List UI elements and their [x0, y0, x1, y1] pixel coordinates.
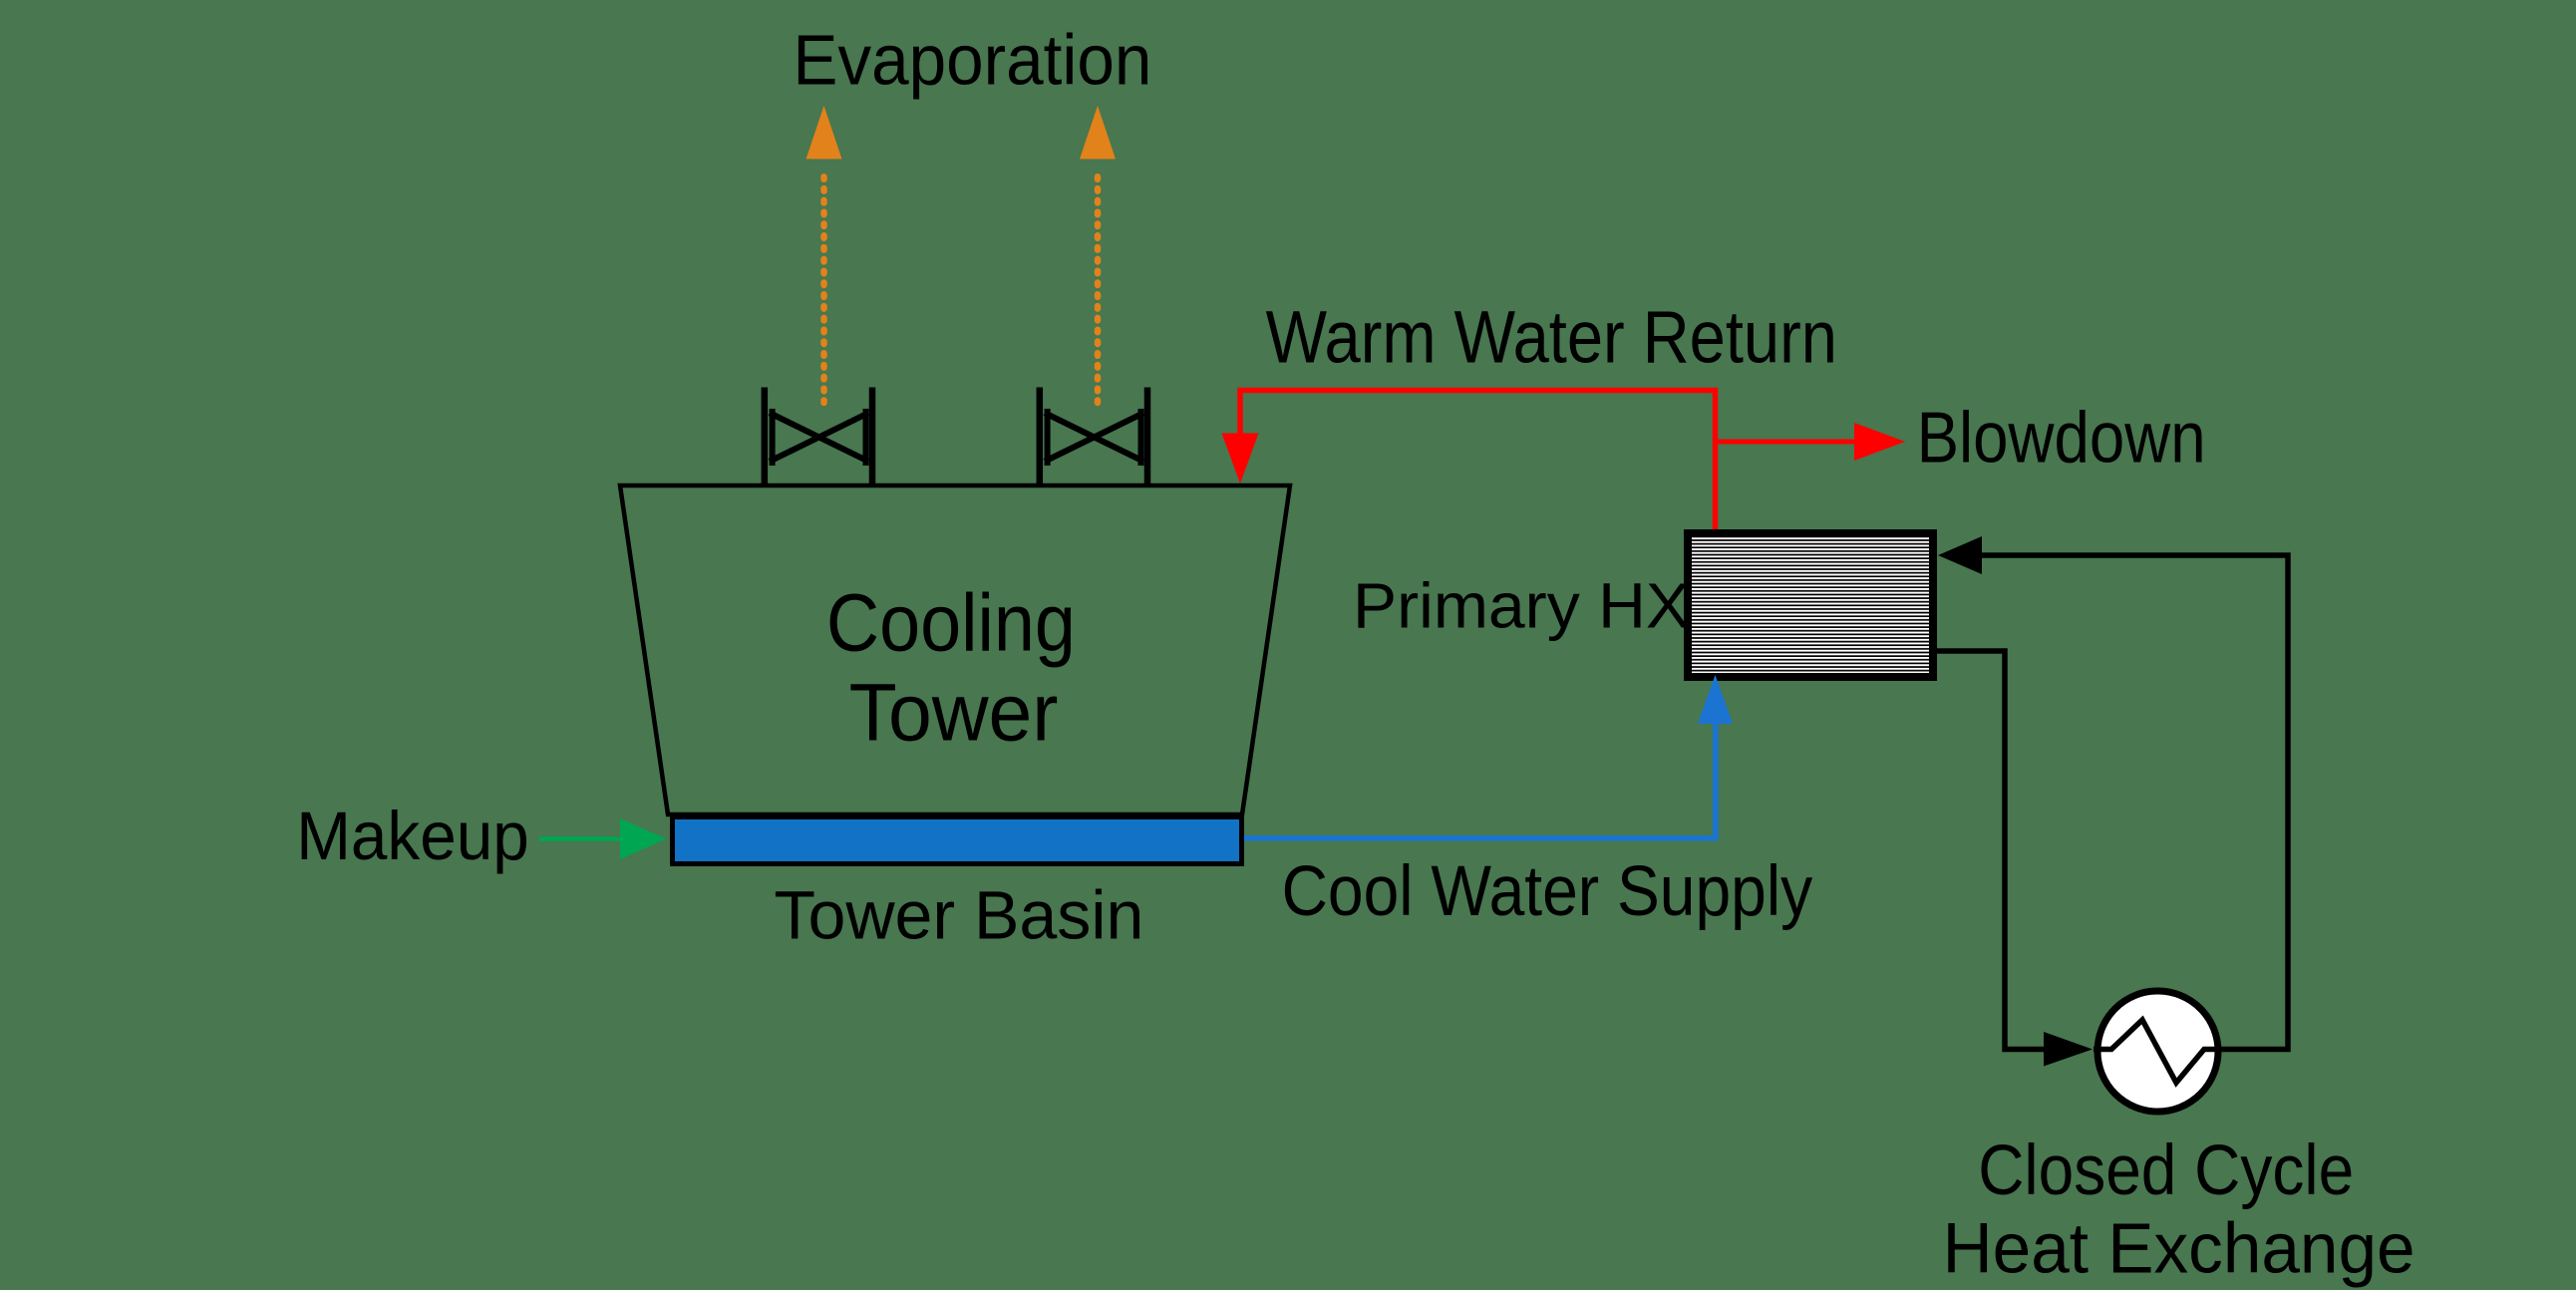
tower basin	[673, 817, 1242, 864]
evaporation dashed line 2	[1095, 170, 1102, 403]
wire: HX bottom outlet to closed cycle	[1934, 651, 2046, 1050]
wire: warm water return pipe	[1240, 391, 1716, 530]
valve V2 left bar	[1037, 388, 1044, 486]
valve V1 right bar	[869, 388, 876, 486]
svg-text:Cooling: Cooling	[826, 578, 1076, 669]
valve V1 left bar	[762, 388, 769, 486]
wire: makeup line	[539, 836, 621, 841]
cool water supply arrowhead into HX	[1698, 675, 1733, 724]
svg-text:Primary HX: Primary HX	[1353, 570, 1690, 642]
wire: closed cycle return to HX right port	[1982, 555, 2288, 1050]
evaporation arrowhead 1	[806, 106, 842, 160]
evaporation dashed line 1	[820, 170, 827, 403]
svg-text:Tower: Tower	[849, 668, 1059, 759]
wire: cool water supply pipe	[1244, 724, 1716, 838]
svg-text:Tower Basin: Tower Basin	[774, 876, 1143, 953]
svg-text:Closed Cycle: Closed Cycle	[1978, 1131, 2354, 1210]
svg-text:Blowdown: Blowdown	[1917, 399, 2206, 479]
svg-text:Evaporation: Evaporation	[793, 22, 1151, 101]
valve V2 right bar	[1144, 388, 1151, 486]
arrowhead into primary HX	[1938, 536, 1982, 574]
warm water return arrowhead into tower	[1222, 434, 1259, 484]
svg-text:Cool Water Supply: Cool Water Supply	[1282, 851, 1813, 931]
svg-text:Warm Water Return: Warm Water Return	[1266, 295, 1837, 378]
wire: blowdown branch	[1716, 440, 1855, 445]
cooling tower shell	[620, 485, 1290, 814]
blowdown arrowhead	[1854, 423, 1905, 461]
makeup arrowhead	[620, 818, 667, 859]
valve V1 bowtie	[773, 412, 866, 463]
primary heat exchanger HX	[1688, 533, 1933, 677]
arrowhead into closed cycle HX	[2044, 1032, 2093, 1067]
closed cycle heat exchanger circle	[2097, 991, 2218, 1112]
svg-text:Makeup: Makeup	[296, 798, 529, 874]
svg-text:Heat Exchange: Heat Exchange	[1943, 1210, 2415, 1289]
evaporation arrowhead 2	[1080, 106, 1116, 160]
zigzag inside circle	[2093, 1020, 2221, 1083]
valve V2 bowtie	[1048, 412, 1141, 463]
